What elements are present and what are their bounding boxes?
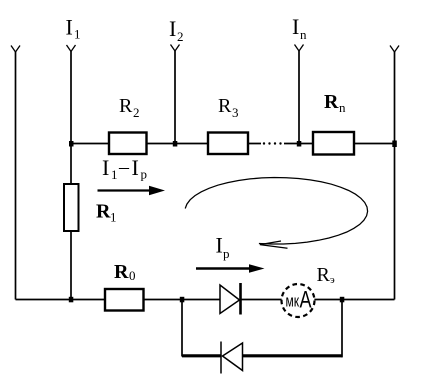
svg-text:I: I xyxy=(102,155,109,180)
arrowhead: circulating current xyxy=(260,241,288,248)
svg-text:n: n xyxy=(339,100,346,115)
svg-text:R: R xyxy=(119,95,133,117)
resistor R3 xyxy=(208,133,248,155)
resistor R0 xyxy=(105,289,144,311)
arrow: Ip current direction xyxy=(196,267,251,269)
wire: input I2 vertical xyxy=(174,51,176,144)
svg-text:I: I xyxy=(292,14,299,39)
node: junction bus-right xyxy=(392,141,397,148)
diode VD1 cathode bar xyxy=(239,283,242,315)
wire: top bus right section xyxy=(284,143,395,145)
diode VD2 cathode bar xyxy=(220,342,222,374)
svg-text:R: R xyxy=(96,201,111,223)
node: junction bottom rail - lower loop right xyxy=(340,297,345,303)
meter mkA circle xyxy=(282,284,315,317)
node: junction bus-I1 xyxy=(69,141,74,147)
node: junction bottom rail - R1 branch xyxy=(69,297,74,303)
wire: lower loop bottom right thick xyxy=(243,354,342,357)
wire: input I1 vertical xyxy=(70,52,72,300)
wire: top bus left section xyxy=(71,143,261,145)
svg-text:1: 1 xyxy=(111,167,118,182)
wire: left branch vertical xyxy=(15,52,17,300)
svg-text:R: R xyxy=(324,91,339,113)
wire: lower loop right vertical xyxy=(341,300,343,358)
arrowhead: input In xyxy=(295,45,304,52)
wire: top bus dotted continuation xyxy=(263,142,282,144)
node: junction bottom rail - lower loop left xyxy=(180,297,185,303)
arrowhead: right branch input xyxy=(390,46,399,53)
arrowhead: left branch input xyxy=(11,46,20,53)
svg-text:–: – xyxy=(118,156,130,178)
svg-text:1: 1 xyxy=(74,27,81,42)
svg-text:p: p xyxy=(141,167,148,182)
loop arrow: circulating current ellipse xyxy=(185,178,367,245)
svg-text:1: 1 xyxy=(110,210,117,225)
wire: bottom rail left of diode xyxy=(16,299,221,301)
svg-text:э: э xyxy=(330,274,335,286)
wire: lower loop bottom left thick xyxy=(182,354,221,357)
svg-text:R: R xyxy=(114,261,129,283)
svg-text:2: 2 xyxy=(133,105,140,120)
svg-text:3: 3 xyxy=(232,105,239,120)
svg-text:мк: мк xyxy=(286,292,300,311)
resistor R2 xyxy=(109,133,147,155)
wire: right branch vertical xyxy=(394,52,396,300)
svg-text:А: А xyxy=(300,287,312,314)
diode VD2 triangle xyxy=(223,343,243,371)
svg-text:0: 0 xyxy=(129,268,136,283)
svg-text:I: I xyxy=(132,155,139,180)
wire: bottom rail right of diode xyxy=(240,299,395,301)
diode VD1 triangle xyxy=(220,285,240,314)
svg-text:2: 2 xyxy=(177,29,184,44)
svg-text:I: I xyxy=(216,233,223,258)
svg-text:I: I xyxy=(66,15,73,40)
svg-text:n: n xyxy=(300,27,307,42)
arrow: I1-Ip current direction xyxy=(98,189,153,191)
svg-text:I: I xyxy=(169,16,176,41)
svg-text:R: R xyxy=(317,264,331,286)
node: junction bus-I2 xyxy=(173,141,178,147)
wire: input In vertical xyxy=(298,51,300,144)
wire: lower loop left vertical xyxy=(181,300,183,357)
arrowhead: input I2 xyxy=(171,45,180,52)
svg-text:R: R xyxy=(218,95,232,117)
node: junction bus-In xyxy=(297,141,302,147)
arrowhead: input I1 xyxy=(67,45,76,52)
svg-text:p: p xyxy=(223,246,230,261)
resistor R1 xyxy=(64,184,79,231)
resistor Rn xyxy=(313,132,354,155)
